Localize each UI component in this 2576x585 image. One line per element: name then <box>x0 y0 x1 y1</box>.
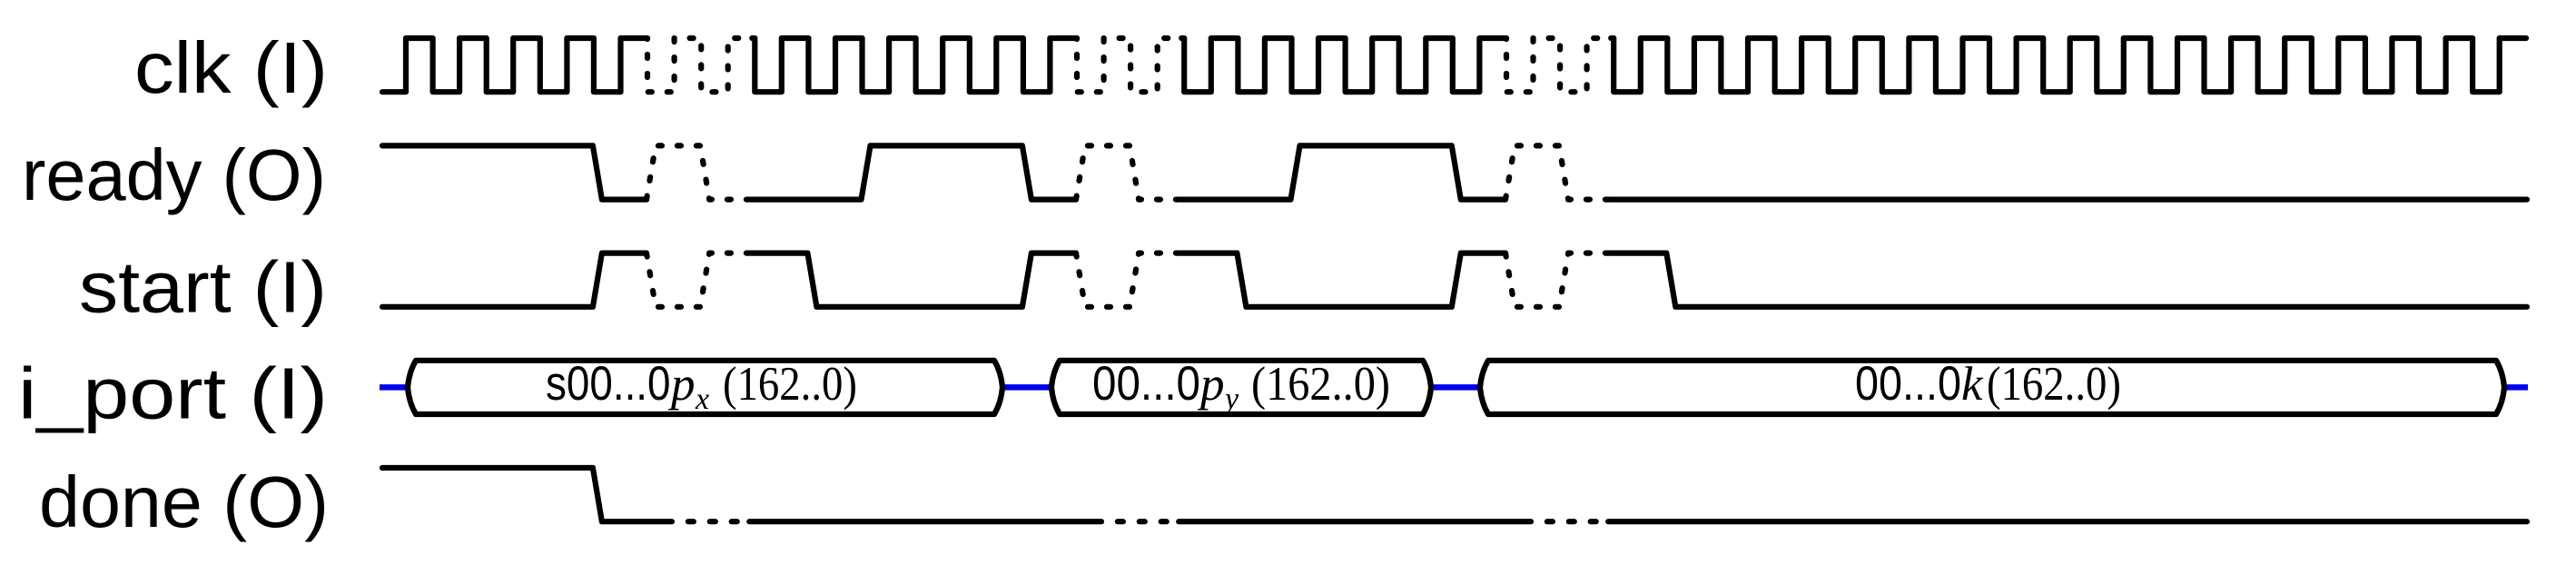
svg-text:00...0: 00...0 <box>1092 357 1200 411</box>
done waveform dotted break 1 <box>666 519 749 524</box>
done waveform solid segment 4 <box>1608 519 2527 524</box>
svg-text:00...0: 00...0 <box>1855 357 1961 411</box>
ready waveform solid segment 2 <box>751 145 1076 199</box>
ready waveform solid segment 1 <box>382 145 646 199</box>
svg-text:done (O): done (O) <box>39 461 329 542</box>
i_port bus outline 00...0py(162..0) <box>1051 361 1431 414</box>
start waveform dotted break 2 <box>1076 253 1180 307</box>
clk waveform solid segment 2 <box>752 38 1074 92</box>
start waveform dotted break 1 <box>646 253 751 307</box>
clk waveform solid segment 4 <box>1611 38 2526 92</box>
start waveform solid segment 1 <box>382 253 646 307</box>
clk waveform dotted break 3 <box>1504 38 1611 92</box>
svg-text:y: y <box>1222 382 1239 416</box>
i_port blue idle segment 2 <box>1002 384 1051 391</box>
start waveform solid segment 2 <box>751 253 1076 307</box>
clk waveform solid segment 1 <box>382 38 645 92</box>
done waveform solid segment 3 <box>1179 519 1525 524</box>
start waveform dotted break 3 <box>1505 253 1610 307</box>
clk waveform dotted break 2 <box>1074 38 1181 92</box>
ready waveform dotted break 2 <box>1076 145 1180 199</box>
ready waveform solid segment 3 <box>1180 145 1505 199</box>
done waveform dotted break 2 <box>1096 519 1179 524</box>
i_port bus outline s00...0px(162..0) <box>408 361 1002 414</box>
i_port blue idle segment 3 <box>1431 384 1480 391</box>
svg-text:x: x <box>695 382 709 416</box>
start waveform solid segment 3 <box>1180 253 1505 307</box>
svg-text:k: k <box>1961 358 1984 411</box>
done waveform solid segment 1 <box>382 468 666 521</box>
svg-text:s00...0: s00...0 <box>546 357 671 411</box>
svg-text:start (I): start (I) <box>79 246 327 327</box>
svg-text:(162..0): (162..0) <box>723 358 857 411</box>
done waveform solid segment 2 <box>749 519 1096 524</box>
svg-text:clk (I): clk (I) <box>134 27 328 108</box>
done waveform dotted break 3 <box>1525 519 1608 524</box>
svg-text:(162..0): (162..0) <box>1987 358 2121 411</box>
clk waveform dotted break 1 <box>645 38 752 92</box>
svg-text:p: p <box>667 358 696 411</box>
clk waveform solid segment 3 <box>1181 38 1504 92</box>
svg-text:i_port (I): i_port (I) <box>18 353 328 434</box>
svg-text:p: p <box>1197 358 1225 411</box>
i_port blue idle segment 1 <box>380 384 408 391</box>
i_port bus outline 00...0k(162..0) <box>1480 361 2504 414</box>
svg-text:(162..0): (162..0) <box>1251 358 1390 411</box>
i_port blue idle segment 4 <box>2504 384 2528 391</box>
ready waveform dotted break 1 <box>646 145 751 199</box>
ready waveform solid segment 4 <box>1610 197 2527 203</box>
start waveform solid segment 4 <box>1610 253 2527 307</box>
svg-text:ready (O): ready (O) <box>22 134 326 215</box>
ready waveform dotted break 3 <box>1505 145 1610 199</box>
